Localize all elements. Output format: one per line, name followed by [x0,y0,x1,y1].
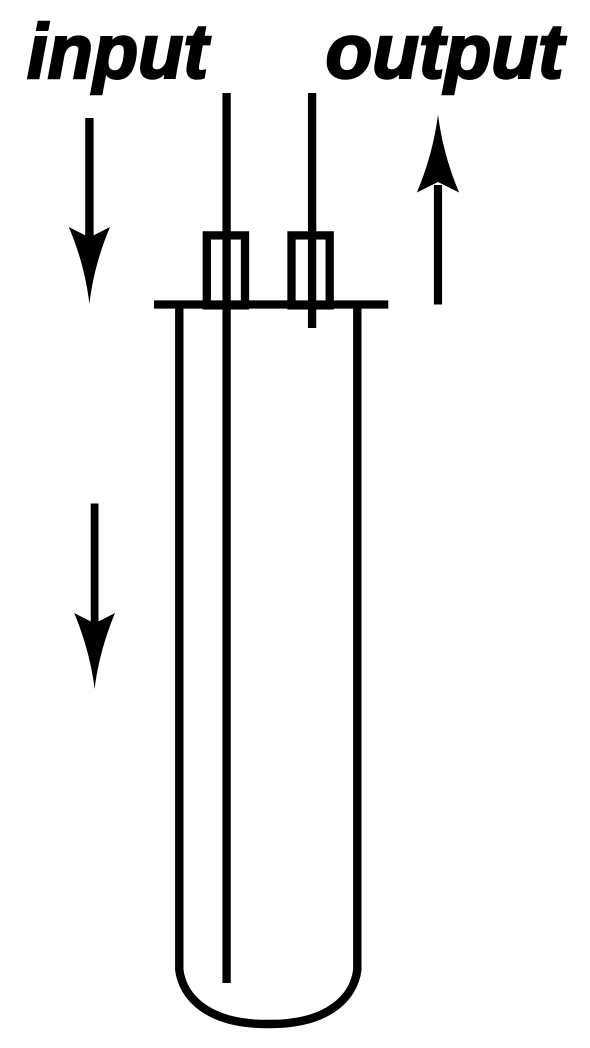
inlet port fitting [207,235,245,305]
arrow input (top, pointing down) [69,118,110,304]
inlet tube (long inner tube) [222,93,230,983]
outlet port fitting [292,235,330,305]
svg-text:input: input [27,9,211,95]
vessel outer wall [179,309,357,1025]
svg-text:output: output [326,9,567,95]
outlet tube (short) [308,93,316,328]
arrow flow (middle-left, pointing down) [74,504,115,690]
flange plate [154,300,388,308]
arrow output (pointing up) [417,115,459,305]
